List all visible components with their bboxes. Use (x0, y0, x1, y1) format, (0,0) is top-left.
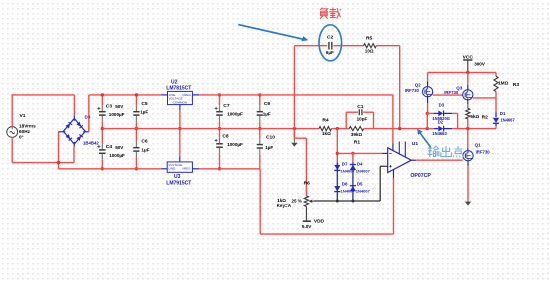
capacitor C4 1000&#181;F (101, 129, 103, 144)
svg-text:300V: 300V (474, 61, 486, 66)
svg-text:1000µF: 1000µF (227, 142, 243, 147)
svg-text:1µF: 1µF (263, 111, 271, 116)
svg-text:C5: C5 (141, 101, 148, 107)
-15V bottom rail (59, 168, 162, 170)
svg-text:C9: C9 (264, 101, 271, 107)
VDD power symbol 5.0V (303, 220, 311, 222)
svg-text:5kΩ: 5kΩ (470, 114, 479, 119)
op-amp +/- marks (389, 152, 391, 154)
svg-text:50V: 50V (115, 145, 124, 150)
MOSFET Q1 IRF730 (467, 129, 469, 149)
capacitor C1 10pF feedback (345, 112, 347, 128)
svg-text:R2: R2 (482, 114, 489, 120)
svg-text:1N4007: 1N4007 (341, 168, 356, 173)
svg-text:1MΩ: 1MΩ (498, 80, 508, 85)
svg-text:R4: R4 (322, 118, 329, 124)
junction dot U2/U3 common on mid rail (178, 127, 181, 130)
op-amp V- column (393, 178, 395, 234)
annotation text shu-chu-dian (output point) hand-drawn strokes (428, 146, 439, 157)
resistor R2 5k (466, 108, 470, 119)
wire ground node to potentiometer R6 (294, 137, 306, 139)
diode D3 1N5820G branch (426, 112, 429, 115)
svg-text:V1: V1 (20, 113, 26, 119)
svg-text:VREG: VREG (182, 166, 191, 170)
node junction R4/R1 to diode clamp (336, 127, 339, 130)
svg-text:0°: 0° (19, 134, 24, 139)
svg-text:OP07CP: OP07CP (410, 173, 431, 179)
svg-text:C10: C10 (266, 134, 275, 140)
capacitor C6 1&#181;F (135, 129, 137, 142)
voltage regulator U3 LM7915CT (167, 162, 192, 172)
op-amp pin bottom V- (393, 170, 395, 178)
op-amp pins top (V+, offset) (392, 143, 394, 150)
svg-text:R1: R1 (354, 139, 361, 145)
top right +300V rail (428, 72, 496, 74)
svg-text:10pF: 10pF (357, 116, 368, 121)
svg-text:LM7915CT: LM7915CT (166, 180, 191, 186)
svg-text:COMMON: COMMON (173, 101, 187, 105)
svg-text:39kΩ: 39kΩ (351, 132, 363, 137)
op-amp U1 OP07CP (388, 148, 412, 173)
resistor R5 10ohm (364, 44, 377, 48)
svg-text:VDD: VDD (314, 218, 325, 224)
svg-text:C6: C6 (141, 139, 148, 145)
diode D2 1N4663 (inline on rail) (434, 128, 439, 130)
svg-text:D8: D8 (85, 115, 91, 120)
svg-text:1B4B42: 1B4B42 (83, 140, 99, 145)
resistor R3 1M (495, 73, 497, 77)
ground symbol at mid rail (293, 127, 296, 130)
capacitor C9 1&#181;F (259, 95, 261, 105)
svg-text:D4: D4 (357, 161, 363, 166)
svg-text:LM7815CT: LM7815CT (166, 85, 191, 91)
svg-text:C7: C7 (223, 103, 230, 109)
svg-text:VCC: VCC (463, 54, 474, 60)
wire top load branch (293, 46, 295, 139)
junction dots C3/C4/C5/C6 on rails (101, 93, 104, 96)
svg-text:1µF: 1µF (140, 110, 148, 115)
svg-text:1N4007: 1N4007 (341, 188, 356, 193)
blue annotation arrow to load ellipse (238, 25, 303, 40)
resistor R4 1k (319, 127, 332, 131)
svg-text:R3: R3 (513, 82, 520, 88)
svg-text:Q2: Q2 (415, 83, 422, 88)
voltage regulator U2 LM7815CT (168, 91, 193, 104)
capacitor C8 1000&#181;F (219, 129, 221, 138)
svg-text:18Vrms: 18Vrms (19, 124, 36, 129)
svg-text:U3: U3 (174, 174, 181, 180)
svg-text:D7: D7 (342, 161, 348, 166)
+15V top rail (199, 94, 393, 96)
svg-text:LINE: LINE (168, 166, 175, 170)
svg-text:1kΩ: 1kΩ (322, 131, 331, 136)
svg-text:10Ω: 10Ω (365, 48, 374, 53)
resistor R1 39k (349, 127, 364, 131)
wire V1 bottom (11, 137, 13, 162)
junction dots C7..C10 (218, 93, 221, 96)
annotation text fu-zai (load) hand-drawn strokes (320, 8, 328, 19)
svg-text:C4: C4 (106, 144, 113, 150)
svg-text:IRF730: IRF730 (405, 88, 420, 93)
capacitor C5 1&#181;F (135, 95, 137, 105)
capacitor C10 1&#181;F (259, 129, 261, 139)
svg-text:C8: C8 (222, 133, 229, 139)
svg-text:1N4663: 1N4663 (432, 131, 447, 136)
svg-text:60Hz: 60Hz (19, 129, 31, 134)
svg-text:Key=A: Key=A (277, 203, 292, 208)
svg-text:1N4007: 1N4007 (356, 188, 371, 193)
wire V1 top to bridge top (11, 95, 13, 127)
svg-text:IRF730: IRF730 (476, 149, 491, 154)
diode D5 1N4007 (350, 186, 356, 191)
bottom rail corner down and across (259, 169, 261, 234)
svg-text:C3: C3 (106, 103, 113, 109)
svg-text:D3: D3 (439, 103, 445, 108)
op-amp output wire (411, 159, 416, 161)
ground mid rail (102, 128, 319, 130)
capacitor C7 1000&#181;F (219, 95, 221, 105)
junction V1-bottom / bridge-left column (57, 161, 60, 164)
diode D7 1N4007 (336, 162, 338, 201)
MOSFET Q3 IRF730 (467, 73, 469, 86)
MOSFET Q2 IRF730 (427, 73, 429, 82)
svg-text:D1: D1 (500, 111, 506, 116)
AC source V1 (18Vrms 60Hz 0deg) (7, 127, 18, 138)
diode D4 1N4007 (352, 162, 354, 201)
blue ellipse highlight around C2 (319, 25, 342, 61)
svg-text:1N4667: 1N4667 (500, 117, 515, 122)
svg-text:6µF: 6µF (326, 50, 334, 55)
potentiometer R6 1k Key=A 25% (304, 196, 308, 207)
svg-text:1µF: 1µF (141, 147, 149, 152)
svg-text:C1: C1 (357, 104, 364, 110)
wire to op-amp inverting input (336, 152, 339, 155)
wire bridge left vertex down to negative rail (58, 132, 60, 169)
svg-text:C2: C2 (327, 35, 334, 41)
black wire pot wiper to op-amp + input (314, 200, 381, 202)
diode D1 1N4667 (495, 98, 497, 113)
svg-text:VREG: VREG (182, 93, 191, 97)
svg-text:R6: R6 (304, 181, 311, 187)
svg-text:50V: 50V (115, 104, 124, 109)
svg-text:D2: D2 (438, 119, 444, 124)
svg-text:1000µF: 1000µF (227, 112, 243, 117)
svg-text:Q1: Q1 (475, 143, 482, 148)
op-amp V+ column from +15V rail (392, 95, 394, 143)
svg-text:U1: U1 (412, 141, 419, 147)
svg-text:R5: R5 (366, 36, 373, 42)
svg-text:5.0V: 5.0V (302, 224, 312, 229)
svg-text:1000µF: 1000µF (109, 112, 125, 117)
svg-text:1N4007: 1N4007 (356, 168, 371, 173)
capacitor C3 1000&#181;F (101, 95, 103, 105)
svg-text:25 %: 25 % (291, 199, 301, 204)
wire Q2 to Q3 (433, 94, 463, 96)
VCC power symbol 300V (463, 59, 472, 61)
wire R5 down to mid rail (399, 46, 401, 129)
svg-text:1µF: 1µF (265, 145, 273, 150)
svg-text:D5: D5 (357, 181, 363, 186)
bridge rectifier D8 1B4B42 (63, 119, 85, 145)
svg-text:IRF730: IRF730 (444, 90, 459, 95)
wire Q3 source to R3 bottom (473, 97, 496, 99)
capacitor C2 6uF (328, 42, 330, 50)
svg-text:D6: D6 (342, 181, 348, 186)
mid rail right section to D2 row (426, 127, 429, 130)
wiper arrow (311, 200, 313, 202)
wire bridge right vertex up to +rail (88, 95, 90, 132)
ground symbol at Q1 source (467, 200, 469, 203)
blue annotation arrow to output point (420, 133, 431, 147)
svg-text:1000µF: 1000µF (109, 153, 125, 158)
diode D6 1N4007 (334, 186, 340, 191)
